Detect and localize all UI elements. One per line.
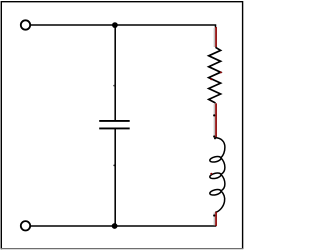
junction top xyxy=(112,22,118,28)
pin dot C xyxy=(213,214,215,216)
inductor L1 xyxy=(209,137,225,212)
wire right middle (net) xyxy=(214,103,216,137)
wire right lower (net) xyxy=(214,212,216,226)
terminal T2 xyxy=(21,221,30,230)
wire top xyxy=(30,25,215,28)
pin dot B xyxy=(213,135,215,137)
wire middle lower xyxy=(114,129,116,226)
resistor R1 xyxy=(209,47,222,103)
wire middle upper xyxy=(114,25,116,120)
junction bottom xyxy=(112,223,118,229)
capacitor C1 xyxy=(99,121,130,128)
pin nub lower xyxy=(113,165,115,167)
wire bottom xyxy=(30,225,216,227)
wire right upper (net) xyxy=(214,27,216,47)
pin nub upper xyxy=(113,85,115,87)
pin dot A xyxy=(213,114,215,116)
terminal T1 xyxy=(21,20,30,29)
